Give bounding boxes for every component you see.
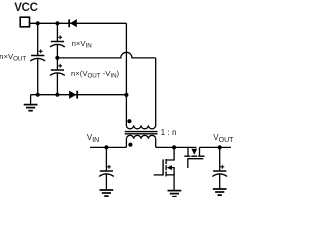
- ground G1: [24, 105, 38, 111]
- ground G4 under Q1: [168, 191, 182, 197]
- node dot Vin: [104, 145, 108, 149]
- wire bottom-left rail: [31, 94, 127, 96]
- wire Cin stem upper: [105, 147, 107, 171]
- wire right vertical to primary: [155, 58, 157, 126]
- transistor Q2: [184, 147, 204, 168]
- wire rail transformer to Q2: [156, 146, 197, 148]
- Q1 body arrow: [167, 165, 172, 170]
- VCC terminal square: [20, 17, 29, 27]
- capacitor C3 n×Vout: [30, 49, 45, 61]
- wire mid node with hop: [57, 52, 155, 58]
- ground G2 under C4: [100, 190, 114, 196]
- node dot Vout: [218, 145, 222, 149]
- node dot A: [36, 21, 40, 25]
- wire branch2 upper: [56, 23, 58, 41]
- wire Cout stem lower: [219, 174, 221, 189]
- svg-text:1 : n: 1 : n: [161, 128, 177, 137]
- diode D1: [69, 19, 77, 27]
- diode D2: [69, 91, 77, 99]
- transformer T1 core: [125, 132, 158, 134]
- ground G1 stem: [30, 95, 32, 105]
- transformer T1 primary: [126, 125, 155, 128]
- transistor Q1: [154, 147, 174, 190]
- transformer primary phase dot: [127, 119, 131, 123]
- svg-text:VCC: VCC: [14, 2, 37, 14]
- wire branch1 upper: [37, 23, 39, 55]
- wire rail Q2 to Vout: [200, 146, 232, 148]
- transformer T1 secondary: [126, 135, 155, 147]
- node dot C: [36, 93, 40, 97]
- node dot mid: [55, 56, 59, 60]
- wire top rail: [30, 22, 127, 24]
- capacitor C4 input: [99, 165, 114, 177]
- wire branch1 lower: [37, 59, 39, 95]
- node dot B: [55, 21, 59, 25]
- wire Vin rail: [90, 146, 126, 148]
- wire branch2 lower: [56, 73, 58, 95]
- node dot E: [124, 93, 128, 97]
- Q2 body arrow: [191, 149, 197, 155]
- ground G3 under C5: [213, 189, 227, 195]
- capacitor C2 n×(Vout-Vin): [50, 64, 65, 76]
- capacitor C1 n×Vin: [50, 35, 65, 47]
- wire Cin stem lower: [105, 174, 107, 190]
- wire branch2 middle: [56, 45, 58, 70]
- node dot Q1 drain: [172, 145, 176, 149]
- wire Cout stem upper: [219, 147, 221, 171]
- capacitor C5 output: [212, 165, 227, 177]
- node dot D: [55, 93, 59, 97]
- wire top-right vertical: [125, 23, 127, 125]
- transformer secondary phase dot: [128, 143, 132, 147]
